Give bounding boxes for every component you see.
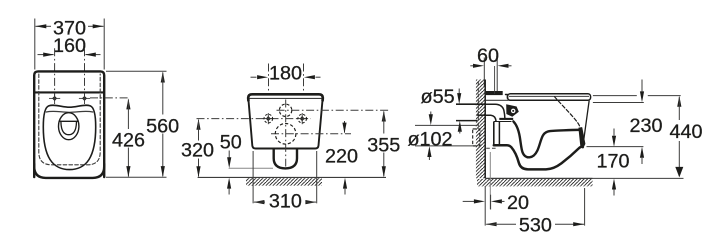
dim 530 right arrow — [573, 222, 584, 226]
svg-text:60: 60 — [477, 45, 499, 67]
dim 50 upper arrow (outside) — [227, 157, 231, 168]
dim 310 right extension — [316, 151, 318, 203]
outlet circle o102 (front, hidden) — [275, 124, 296, 145]
fixing holes centerline (front) — [197, 118, 312, 120]
dim 20 right arrow — [491, 199, 502, 203]
seat and lid slab — [508, 94, 591, 101]
dim 20 right arrow tail — [502, 200, 505, 202]
dim 60 left arrow — [473, 64, 484, 68]
centerline right button — [84, 48, 86, 104]
dim 370 left extension line — [34, 19, 36, 70]
rim top line — [499, 118, 513, 120]
flush opening chord line — [59, 120, 78, 122]
svg-text:170: 170 — [596, 151, 629, 173]
front floor line — [198, 176, 386, 178]
inlet pipe sleeve bottom line — [456, 120, 477, 122]
outlet pipe top line (o102) — [415, 124, 478, 126]
ceramic top extension line — [593, 102, 644, 104]
bracket step — [506, 95, 508, 99]
svg-text:426: 426 — [112, 130, 145, 152]
dim o55 top arrow shaft — [458, 89, 460, 94]
dim 180 left centerline extension — [268, 64, 270, 94]
dim 426 line lower — [127, 148, 129, 177]
hidden outlet pipe in wall — [473, 129, 480, 146]
dim 170 bottom arrow shaft — [613, 190, 615, 196]
bowl outer back line — [493, 122, 495, 145]
outlet bottom extension line — [587, 146, 644, 148]
svg-text:20: 20 — [507, 192, 529, 214]
floor extension line right — [593, 177, 684, 179]
top edge extension line — [106, 70, 167, 72]
flush bend inner — [486, 115, 496, 121]
fixing hole marker right (front) — [299, 116, 305, 122]
dim 355 line lower — [383, 153, 385, 177]
flush jet inner half-oval — [61, 121, 77, 134]
toilet plan outer body bottom — [34, 164, 104, 178]
outlet pipe bottom line (o102) — [415, 145, 478, 147]
dim 170 bottom arrow (outside) — [612, 179, 616, 190]
seat seam line — [46, 111, 93, 112]
dim 370 line right segment — [88, 25, 104, 27]
dim 160 right arrow tail — [86, 54, 101, 56]
dim 180 right centerline extension — [303, 64, 305, 94]
svg-text:230: 230 — [629, 115, 662, 137]
seat outer outline — [43, 105, 95, 169]
dim 440 line upper — [678, 97, 680, 120]
bracket lower line — [486, 99, 509, 101]
dim 320 line upper — [198, 120, 200, 141]
dim 230 top arrow shaft — [641, 80, 643, 92]
dim 426 top arrow — [126, 98, 130, 109]
dim 180 left arrow tail — [251, 76, 257, 78]
dim 370 line left segment — [36, 25, 52, 27]
seat top extension line left part — [593, 95, 637, 97]
seat seam line (side) — [509, 95, 589, 97]
dim 440 bottom arrow — [675, 167, 683, 178]
inlet pipe bottom line at wall — [477, 114, 486, 116]
dim 50 lower arrow shaft — [228, 189, 230, 195]
dim 60 left extension line — [483, 58, 485, 87]
wall face line — [484, 80, 486, 179]
dim 530 line left — [486, 223, 516, 225]
side floor line — [485, 177, 592, 179]
inlet pipe top line — [456, 103, 486, 105]
dim 220 bottom arrow shaft — [344, 189, 346, 195]
dim 180 right arrow — [304, 75, 315, 79]
dim 355 bottom arrow — [382, 166, 386, 177]
dim o55 bottom arrow shaft — [459, 132, 461, 134]
toilet plan outer body sides+top — [34, 71, 104, 177]
dim o102 top arrow shaft — [430, 112, 432, 115]
mounting bracket bar — [486, 91, 503, 95]
svg-text:320: 320 — [181, 139, 214, 161]
dim 426 line upper — [127, 100, 129, 130]
dim 355 line upper — [383, 112, 385, 134]
dim 220 bottom arrow (outside) — [343, 178, 347, 189]
front vertical centerline — [285, 100, 287, 167]
bottom edge extension line — [106, 176, 167, 178]
bowl inner back line — [498, 122, 500, 145]
dim 530 right extension line — [584, 188, 586, 226]
front body top seam line — [249, 97, 321, 99]
wall hatch band — [476, 80, 485, 179]
rim bottom line — [494, 121, 512, 123]
dim 310 left arrow — [253, 200, 264, 204]
hidden outlet connection dashes — [486, 147, 498, 149]
dim 180 right arrow tail — [316, 76, 321, 78]
dim 440 line lower — [678, 141, 680, 176]
outlet centerline (220 ref) — [271, 133, 351, 135]
hidden cistern edge in wall — [477, 82, 479, 129]
seat top extension line right part — [648, 95, 681, 97]
dim 60 right extension line — [496, 58, 498, 94]
flush opening outline — [58, 113, 78, 140]
dim 426 bottom arrow — [126, 166, 130, 177]
dim 20 left arrow — [474, 199, 485, 203]
dim 560 bottom arrow — [161, 166, 165, 177]
svg-text:440: 440 — [669, 121, 702, 143]
svg-text:ø55: ø55 — [421, 86, 455, 108]
dim 170 top arrow shaft — [613, 129, 615, 136]
dim o102 bottom arrow (outside) — [427, 146, 431, 157]
frame edge thin line — [494, 66, 496, 94]
dim o55 top arrow (outside) — [457, 93, 461, 104]
svg-text:50: 50 — [220, 132, 242, 154]
dim 320 bottom arrow — [196, 166, 200, 177]
dim 560 line lower — [162, 134, 164, 177]
svg-text:560: 560 — [146, 115, 179, 137]
dim 180 left arrow — [257, 75, 268, 79]
dim 230 bottom arrow shaft — [641, 158, 643, 164]
water inlet circle (front, hidden) — [279, 104, 291, 116]
dim 170 top arrow (outside) — [612, 136, 616, 147]
fixing hole dashed circle left — [264, 114, 273, 123]
dim 160 right arrow — [85, 53, 96, 57]
dim 20 left arrow tail — [463, 200, 474, 202]
wall face extension below floor — [484, 186, 486, 226]
dim 160 left arrow tail — [38, 54, 54, 56]
outlet spigot front — [274, 149, 297, 169]
fixing hole marker left (front) — [265, 116, 271, 122]
flush bend outer — [486, 104, 505, 118]
dim 60 left arrow tail — [470, 65, 473, 67]
dim 440 top arrow — [677, 96, 681, 107]
svg-text:310: 310 — [269, 191, 302, 213]
fixing hole marker right (plan) — [81, 95, 87, 101]
front body top edge — [248, 94, 323, 100]
dim 230 top arrow (outside) — [640, 91, 644, 102]
dim o102 bottom arrow shaft — [428, 157, 430, 160]
dim 355 top arrow — [382, 111, 386, 122]
fixing hole marker left (plan) — [52, 95, 58, 101]
dim 160 left arrow — [43, 53, 54, 57]
svg-text:ø102: ø102 — [407, 128, 452, 150]
svg-text:355: 355 — [367, 135, 400, 157]
dim 310 right arrow — [305, 200, 316, 204]
hidden inner rim dashed — [39, 74, 100, 165]
front floor hatch — [246, 178, 322, 186]
dim 560 line upper — [162, 73, 164, 115]
hidden inner bowl front curve — [555, 97, 580, 128]
dim o55 bottom arrow (outside) — [458, 121, 462, 132]
fixing holes centerline extension right — [90, 97, 130, 99]
drain reference line — [489, 152, 491, 209]
svg-text:220: 220 — [325, 146, 358, 168]
outlet bottom reference stub — [229, 167, 273, 169]
bowl front thickness wedge — [579, 128, 585, 148]
dim 50 lower arrow (outside) — [227, 178, 231, 189]
dim 560 top arrow — [161, 72, 165, 83]
bowl outer underside silhouette — [494, 145, 583, 169]
fixing hole dashed circle right — [298, 114, 307, 123]
svg-text:160: 160 — [53, 35, 86, 57]
dim 60 right arrow — [498, 64, 509, 68]
dim 230 bottom arrow (outside) — [640, 147, 644, 158]
front body sides and bottom — [248, 99, 322, 149]
dim 320 top arrow — [196, 119, 200, 130]
svg-text:530: 530 — [519, 215, 552, 237]
dim 370 right arrow — [93, 24, 104, 28]
bowl front face line — [583, 101, 589, 145]
cistern edge line — [35, 91, 104, 93]
dim o102 top arrow (outside) — [429, 114, 433, 125]
dim 60 right arrow tail — [508, 65, 512, 67]
dim 530 left arrow — [486, 222, 497, 226]
water inlet centerline (355 ref) — [277, 109, 391, 111]
seat hinge lug — [506, 104, 519, 117]
side floor hatch — [477, 179, 593, 186]
dim 310 left extension — [252, 151, 254, 203]
dim 370 left arrow — [35, 24, 46, 28]
dim 320 line lower — [198, 159, 200, 177]
dim 220 top arrow shaft — [344, 121, 346, 133]
dim 530 line right — [555, 223, 584, 225]
dim 20 right extension line — [490, 195, 492, 210]
dim 370 right extension line — [103, 19, 105, 70]
dim 220 top arrow (outside) — [342, 123, 346, 134]
svg-text:180: 180 — [269, 62, 302, 84]
centerline left button — [54, 48, 56, 104]
dim 50 upper arrow shaft — [228, 151, 230, 158]
trap inner swan curve and shelf — [513, 121, 579, 157]
